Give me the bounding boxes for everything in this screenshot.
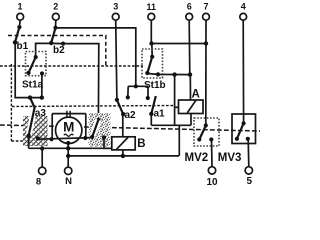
right hatch block: [89, 113, 111, 147]
wire relay A top: [189, 75, 191, 100]
node st1b right contact: [156, 72, 160, 76]
node relay A top: [188, 72, 192, 76]
terminal 4: [240, 13, 247, 20]
svg-text:10: 10: [206, 177, 218, 188]
left hatch block: [23, 116, 48, 146]
wire through motor bottom (brush bus): [38, 138, 92, 140]
wire 11 to st1b contact: [151, 44, 153, 57]
svg-text:St1b: St1b: [144, 80, 166, 91]
node motor left: [49, 137, 53, 141]
dashed line mid1 y66: [0, 65, 143, 67]
terminal 2: [52, 13, 59, 20]
wire st1b to relay A top node: [147, 74, 190, 75]
svg-text:B: B: [137, 138, 145, 150]
svg-text:5: 5: [247, 176, 253, 187]
node motor bottom: [66, 141, 70, 145]
dashed line low y128: [0, 125, 260, 131]
wire MV3 to terminal 5: [247, 139, 250, 167]
wire 11 to 7: [152, 43, 207, 45]
relay B diagonal: [117, 137, 129, 149]
wire term1 down: [18, 20, 21, 27]
wire relay A bottom pin: [190, 114, 192, 126]
svg-text:3: 3: [113, 2, 118, 12]
node rh tip: [90, 135, 94, 139]
wire a1 down to junction: [150, 114, 152, 125]
node lh second contact: [36, 136, 40, 140]
wire term6 down: [188, 20, 191, 74]
svg-text:a1: a1: [154, 109, 166, 120]
node a1 pivot: [149, 112, 153, 116]
svg-text:a2: a2: [125, 110, 137, 121]
terminal 7: [203, 13, 210, 20]
bottom bus2: [68, 155, 179, 157]
node st1b pivot: [145, 71, 149, 75]
svg-text:St1a: St1a: [22, 80, 44, 91]
wire st1a contact down: [41, 74, 43, 98]
switch b2 blade: [51, 28, 55, 43]
svg-text:7: 7: [203, 2, 208, 12]
svg-text:M: M: [63, 120, 74, 135]
node 11: [149, 41, 153, 45]
node b2 pivot: [49, 41, 53, 45]
switch MV3 blade: [237, 123, 244, 139]
motor bottom wire to N: [67, 143, 69, 167]
svg-text:b2: b2: [53, 45, 65, 56]
wire term2 right to feed column: [56, 28, 136, 86]
svg-text:MV3: MV3: [218, 152, 242, 164]
st1a box: [26, 52, 47, 76]
node st1b top contact: [150, 55, 154, 59]
terminal 6: [186, 13, 193, 20]
motor tilde: [64, 134, 74, 136]
svg-text:2: 2: [53, 2, 58, 12]
node mid wire: [172, 72, 176, 76]
node relay B bottom: [121, 154, 125, 158]
relay A diagonal: [187, 100, 196, 113]
node st1a contact wire end: [40, 95, 44, 99]
terminal 8 circle: [39, 167, 46, 174]
wire MV2 to terminal 10: [211, 140, 214, 167]
node a3 feed: [28, 95, 32, 99]
svg-text:11: 11: [147, 2, 157, 12]
terminal 10 circle: [208, 167, 215, 174]
dashed left box edge: [11, 64, 26, 141]
svg-text:6: 6: [187, 2, 192, 12]
motor frame wire: [52, 114, 86, 140]
node N on W1: [66, 146, 70, 150]
svg-text:a3: a3: [35, 108, 47, 119]
wire junction down to bus: [178, 125, 180, 156]
terminal 11: [148, 13, 155, 20]
motor brushes: [67, 111, 70, 117]
switch a2 blade: [117, 100, 123, 114]
svg-text:1: 1: [17, 2, 22, 12]
node b1 pivot: [13, 40, 17, 44]
node a2 right contact: [126, 95, 130, 99]
wire a2 to relay B: [122, 114, 124, 137]
wire term2 down: [55, 20, 57, 28]
wire a1/A junction horizontal: [151, 124, 191, 126]
node st1a top contact: [34, 55, 38, 59]
node motor right: [83, 136, 87, 140]
svg-text:N: N: [65, 176, 72, 187]
MV3 box: [232, 114, 256, 144]
node rh second contact: [102, 135, 106, 139]
switch a3 blade: [29, 108, 35, 136]
switch St1a blade: [29, 57, 36, 73]
node MV3 feed: [242, 121, 246, 125]
terminal N circle: [65, 167, 72, 174]
node MV2 tip: [197, 137, 201, 141]
wire to terminal 8: [41, 148, 43, 167]
node MV2 feed: [204, 123, 208, 127]
node term2: [53, 26, 57, 30]
node a1 contact: [146, 96, 150, 100]
switch MV2 blade: [199, 126, 206, 140]
switch b1 blade: [15, 27, 19, 42]
terminal 5 circle: [245, 167, 252, 174]
wire term11 down: [150, 20, 152, 43]
motor M circle: [55, 117, 81, 143]
node a3 tip: [26, 134, 30, 138]
wire b2 right: [51, 43, 99, 119]
terminal 1: [17, 13, 24, 20]
node MV2 contact: [209, 137, 213, 141]
node N on bus2: [66, 154, 70, 158]
node pi top: [134, 84, 138, 88]
wire rh contact to relay B side: [104, 138, 112, 149]
node a2 contact: [115, 98, 119, 102]
wire down from st1b node: [174, 75, 176, 126]
wire a3 tip down: [28, 136, 30, 149]
wire relay A left pin: [175, 106, 179, 108]
switch a1 blade: [151, 96, 156, 114]
svg-text:MV2: MV2: [185, 152, 209, 164]
node term1: [17, 25, 21, 29]
relay B box: [112, 137, 135, 150]
wire term4 down to MV3: [242, 20, 244, 123]
switch St1b blade: [147, 57, 152, 73]
wire b1 down to corner: [15, 42, 42, 97]
svg-text:A: A: [192, 89, 200, 101]
svg-text:4: 4: [241, 2, 246, 12]
bottom wire W1: [29, 147, 112, 149]
switch rh blade: [92, 120, 98, 137]
st1b box: [142, 49, 163, 78]
dashed line mid2 y105: [12, 106, 175, 107]
wire term7 down to MV2: [205, 20, 207, 125]
MV2 box: [194, 118, 219, 146]
node rh feed: [96, 118, 100, 122]
node a2 pivot: [121, 112, 125, 116]
node 8 junction: [40, 146, 44, 150]
dashed enclosure top (wiper switch box): [8, 36, 106, 67]
terminal 3: [112, 13, 119, 20]
feed column pi-shape: [128, 86, 148, 98]
node b2 contact: [61, 42, 65, 46]
wire b2 to st1a top: [36, 43, 52, 57]
node MV3 tip: [235, 137, 239, 141]
node at 7 line: [204, 41, 208, 45]
node st1a blade tip: [26, 71, 30, 75]
wire term3 down to a2: [116, 20, 117, 100]
node st1a right contact: [40, 71, 44, 75]
relay A box: [179, 100, 204, 114]
node MV3 contact: [246, 137, 250, 141]
svg-text:b1: b1: [17, 41, 29, 52]
wire relay B bottom: [122, 150, 124, 156]
svg-text:8: 8: [36, 177, 41, 188]
